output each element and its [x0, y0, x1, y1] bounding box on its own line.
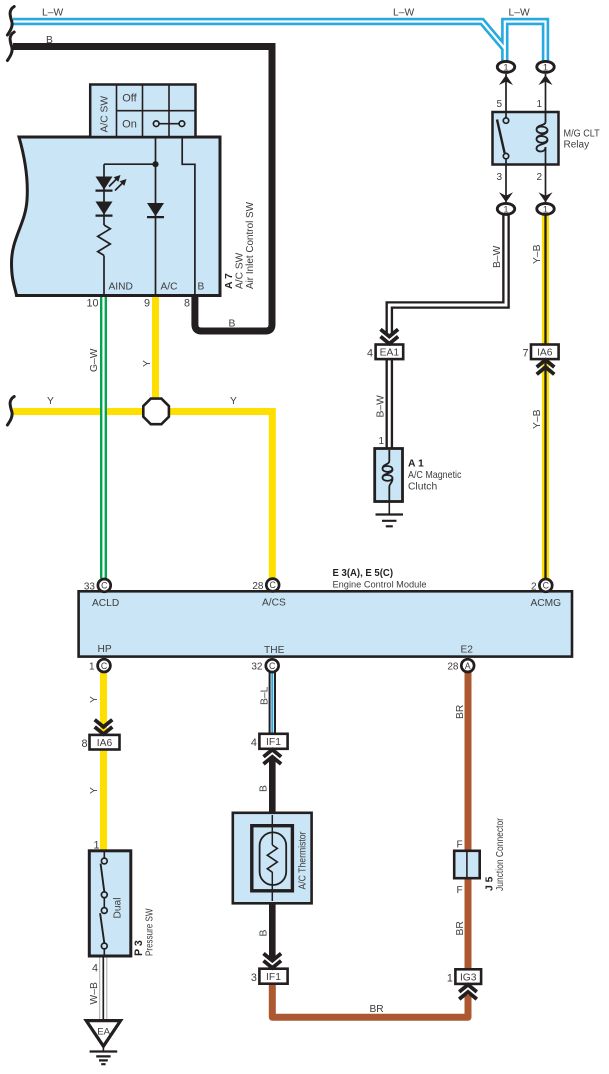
svg-text:28: 28 [252, 581, 264, 592]
svg-text:L–W: L–W [509, 8, 530, 19]
svg-text:C: C [543, 581, 550, 591]
svg-text:5: 5 [496, 99, 502, 110]
svg-text:ACLD: ACLD [92, 598, 119, 609]
svg-text:10: 10 [86, 298, 98, 310]
svg-text:2: 2 [531, 581, 537, 592]
svg-text:8: 8 [184, 298, 190, 310]
svg-text:4: 4 [251, 737, 257, 749]
svg-text:G–W: G–W [89, 348, 100, 372]
svg-text:8: 8 [81, 738, 87, 750]
svg-text:Junction Connector: Junction Connector [495, 817, 506, 891]
svg-text:A 1: A 1 [408, 459, 424, 470]
svg-text:Y–B: Y–B [532, 244, 543, 264]
svg-text:BR: BR [370, 1004, 384, 1015]
svg-text:EA: EA [97, 1027, 110, 1038]
svg-text:W–B: W–B [89, 982, 100, 1004]
svg-text:28: 28 [447, 662, 459, 673]
svg-text:1: 1 [379, 436, 385, 447]
svg-text:1: 1 [447, 972, 453, 984]
svg-text:Y–B: Y–B [532, 409, 543, 429]
svg-text:C: C [269, 661, 276, 671]
svg-text:Y: Y [89, 696, 100, 703]
svg-text:Air Inlet Control SW: Air Inlet Control SW [245, 202, 256, 289]
svg-text:C: C [270, 580, 277, 590]
svg-text:EA1: EA1 [380, 348, 400, 359]
svg-text:Dual: Dual [113, 898, 124, 919]
svg-text:A/C Thermistor: A/C Thermistor [298, 831, 309, 890]
svg-text:F: F [457, 839, 463, 850]
svg-text:A/C SW: A/C SW [100, 96, 111, 133]
svg-text:Clutch: Clutch [408, 482, 437, 493]
svg-text:1: 1 [543, 203, 548, 214]
svg-text:B: B [198, 282, 205, 293]
svg-text:32: 32 [251, 662, 263, 673]
svg-text:A/C Magnetic: A/C Magnetic [408, 470, 462, 481]
svg-text:L–W: L–W [393, 8, 414, 19]
svg-text:Off: Off [122, 93, 137, 105]
svg-text:L–W: L–W [42, 8, 63, 19]
svg-text:1: 1 [94, 840, 100, 852]
svg-text:9: 9 [144, 298, 150, 310]
svg-text:1: 1 [536, 99, 542, 110]
svg-text:E2: E2 [461, 645, 474, 656]
svg-text:Y: Y [230, 396, 237, 407]
svg-text:Y: Y [142, 360, 153, 367]
svg-text:Engine Control Module: Engine Control Module [333, 579, 427, 590]
svg-text:33: 33 [84, 581, 96, 592]
svg-text:ACMG: ACMG [531, 598, 562, 609]
svg-text:BR: BR [455, 921, 466, 935]
svg-text:F: F [457, 885, 463, 896]
svg-text:B: B [229, 319, 236, 330]
svg-text:IF1: IF1 [266, 972, 281, 983]
svg-text:A 7: A 7 [224, 273, 235, 289]
svg-text:2: 2 [536, 172, 542, 183]
svg-text:A/CS: A/CS [262, 598, 286, 609]
svg-text:IA6: IA6 [537, 348, 553, 359]
svg-text:Y: Y [47, 396, 54, 407]
svg-text:B–W: B–W [492, 245, 503, 268]
svg-text:4: 4 [367, 348, 373, 360]
svg-text:C: C [101, 661, 108, 671]
svg-text:IA6: IA6 [97, 738, 113, 749]
svg-text:Relay: Relay [564, 139, 590, 150]
svg-text:Pressure SW: Pressure SW [145, 908, 156, 956]
svg-text:A/C SW: A/C SW [235, 252, 246, 289]
svg-text:Y: Y [89, 787, 100, 794]
svg-text:3: 3 [251, 972, 257, 984]
svg-text:B: B [46, 35, 53, 46]
svg-text:A/C: A/C [161, 282, 178, 293]
svg-text:B–L: B–L [259, 686, 270, 705]
svg-text:AIND: AIND [109, 282, 133, 293]
svg-text:IG3: IG3 [460, 972, 477, 983]
svg-text:3: 3 [496, 172, 502, 183]
svg-text:1: 1 [503, 61, 508, 72]
svg-text:1: 1 [503, 203, 508, 214]
svg-text:1: 1 [89, 662, 95, 673]
svg-text:A: A [465, 661, 471, 671]
svg-text:1: 1 [543, 61, 548, 72]
svg-text:IF1: IF1 [266, 737, 281, 748]
svg-text:On: On [122, 119, 137, 131]
svg-text:B: B [258, 930, 269, 937]
svg-text:4: 4 [92, 963, 98, 975]
svg-text:B–W: B–W [376, 395, 387, 418]
svg-text:BR: BR [455, 705, 466, 719]
svg-text:7: 7 [522, 348, 528, 360]
svg-text:HP: HP [98, 644, 112, 655]
svg-text:J 5: J 5 [484, 876, 495, 891]
svg-text:P 3: P 3 [133, 940, 145, 956]
svg-text:M/G CLT: M/G CLT [564, 128, 600, 139]
svg-text:E 3(A), E 5(C): E 3(A), E 5(C) [333, 568, 394, 579]
svg-text:B: B [258, 785, 269, 792]
svg-text:C: C [101, 581, 108, 591]
svg-text:THE: THE [264, 645, 285, 656]
